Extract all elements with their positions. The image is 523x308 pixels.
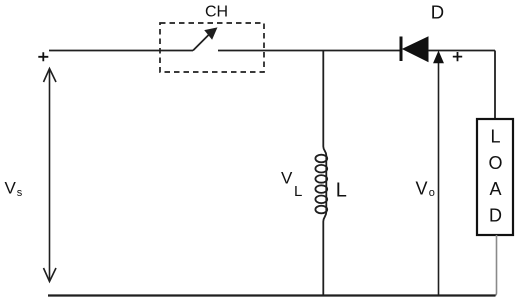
svg-text:V: V (5, 179, 17, 198)
wire: inductor branch lower segment to bottom rail (322, 222, 324, 297)
svg-text:D: D (489, 205, 502, 225)
svg-text:L: L (294, 183, 302, 200)
wire: bottom rail (48, 294, 496, 296)
output arrow Vo (from bottom rail up to output node) (434, 52, 443, 296)
label L (inductor value) (336, 180, 347, 202)
svg-text:CH: CH (205, 4, 228, 21)
svg-text:V: V (281, 169, 293, 188)
label Vo (416, 179, 435, 200)
wire: diode anode to top-right corner (428, 50, 495, 52)
wire: right vertical drop to load (494, 51, 496, 120)
load box (477, 119, 513, 235)
wire: inductor branch upper segment (322, 51, 324, 147)
svg-text:L: L (336, 180, 347, 202)
svg-text:s: s (17, 187, 23, 199)
chopper CH dashed enclosure (160, 23, 264, 72)
label Vs (5, 179, 23, 199)
label CH (205, 4, 228, 21)
plus sign at source positive terminal (38, 52, 48, 61)
label V_L (281, 169, 302, 201)
plus sign at output positive terminal (453, 52, 462, 61)
diode D (cathode bar + filled triangle pointing left) (401, 37, 428, 62)
svg-text:o: o (429, 187, 435, 199)
svg-text:A: A (489, 179, 501, 199)
wire: top rail from source positive terminal to chopper (49, 50, 193, 52)
label LOAD (488, 127, 502, 226)
svg-text:V: V (416, 179, 428, 199)
svg-text:O: O (488, 153, 502, 173)
switch CH blade with arrowhead (193, 28, 216, 50)
inductor L coil (315, 147, 327, 222)
source arrow Vs (double-headed measurement arrow) (44, 69, 57, 282)
svg-text:L: L (490, 127, 500, 147)
label D (431, 1, 444, 22)
wire: load bottom lead (grey) to bottom rail (494, 235, 497, 296)
wire: chopper right contact to diode cathode (218, 50, 400, 52)
svg-text:D: D (431, 1, 444, 22)
